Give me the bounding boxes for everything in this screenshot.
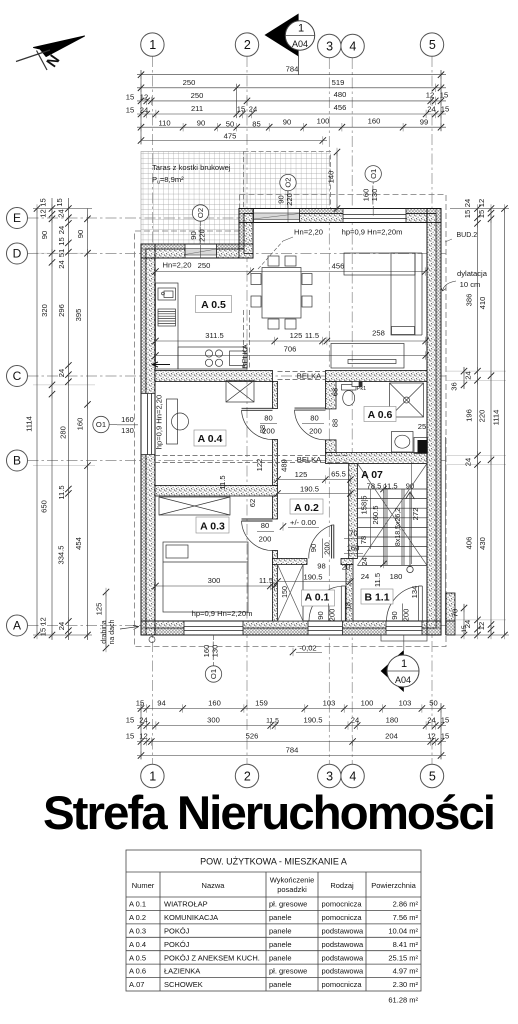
svg-text:25.15 m²: 25.15 m² xyxy=(388,953,418,962)
svg-text:Nazwa: Nazwa xyxy=(202,881,226,890)
svg-text:134: 134 xyxy=(410,586,419,599)
grid axes vertical 1-5 xyxy=(152,56,432,764)
svg-text:5: 5 xyxy=(429,769,436,783)
svg-text:15: 15 xyxy=(57,237,66,245)
svg-text:15: 15 xyxy=(126,93,134,102)
svg-text:454: 454 xyxy=(74,537,83,550)
svg-text:A 0.6: A 0.6 xyxy=(368,409,393,421)
svg-text:51: 51 xyxy=(57,249,66,257)
grid axes horizontal A-E xyxy=(28,218,447,626)
svg-text:C: C xyxy=(13,369,22,383)
svg-text:11.5: 11.5 xyxy=(218,475,227,489)
svg-text:70: 70 xyxy=(349,529,357,538)
svg-text:Pk1: Pk1 xyxy=(357,386,366,392)
svg-text:80: 80 xyxy=(310,414,318,423)
svg-text:25: 25 xyxy=(418,422,426,431)
svg-text:159: 159 xyxy=(255,699,268,708)
svg-text:94: 94 xyxy=(157,699,165,708)
top dimension block xyxy=(137,70,446,144)
svg-text:12: 12 xyxy=(139,732,147,741)
svg-text:1114: 1114 xyxy=(492,410,501,426)
svg-text:125: 125 xyxy=(295,470,308,479)
exterior wall insulation layers xyxy=(141,209,441,636)
svg-text:15: 15 xyxy=(440,91,448,100)
svg-text:1: 1 xyxy=(298,23,304,35)
terrace paving xyxy=(141,152,331,249)
svg-text:O2: O2 xyxy=(196,208,205,218)
svg-text:E: E xyxy=(13,211,21,225)
svg-text:250: 250 xyxy=(191,91,204,100)
svg-text:Hn=2,20: Hn=2,20 xyxy=(294,228,323,237)
living room dim line 706 xyxy=(156,355,426,357)
entry door B arc xyxy=(387,586,423,621)
svg-text:A 0.6: A 0.6 xyxy=(129,967,146,976)
svg-text:+/- 0.00: +/- 0.00 xyxy=(290,518,316,527)
svg-text:-0,02: -0,02 xyxy=(299,644,316,653)
svg-text:A04: A04 xyxy=(395,675,411,685)
svg-text:2.86 m²: 2.86 m² xyxy=(393,900,419,909)
BUD.2 neighbour wall stub xyxy=(446,437,456,635)
svg-text:A: A xyxy=(13,619,21,633)
svg-text:12: 12 xyxy=(39,617,48,625)
svg-text:110: 110 xyxy=(158,119,170,128)
vent arrow kitchen xyxy=(152,362,170,367)
svg-text:99: 99 xyxy=(420,118,428,127)
grid bubbles top xyxy=(141,33,444,58)
svg-text:24: 24 xyxy=(139,716,147,725)
grid bubbles left xyxy=(7,208,28,637)
svg-text:220: 220 xyxy=(478,410,487,423)
svg-text:Hn=2,20: Hn=2,20 xyxy=(163,261,192,270)
under-stair void X xyxy=(357,464,427,566)
svg-text:90: 90 xyxy=(390,611,399,619)
svg-text:160: 160 xyxy=(208,699,221,708)
svg-text:A 0.5: A 0.5 xyxy=(129,953,146,962)
svg-text:100: 100 xyxy=(317,117,330,126)
svg-text:85: 85 xyxy=(252,120,260,129)
svg-text:24: 24 xyxy=(360,557,369,565)
svg-text:15: 15 xyxy=(441,716,449,725)
svg-text:B: B xyxy=(13,454,21,468)
window bottom wall O1 xyxy=(184,621,243,635)
svg-text:78.5: 78.5 xyxy=(367,482,382,491)
terrace door right O2 xyxy=(254,209,300,223)
area table xyxy=(126,850,421,991)
svg-text:160: 160 xyxy=(347,544,360,553)
svg-text:2.30 m²: 2.30 m² xyxy=(393,980,419,989)
svg-text:296: 296 xyxy=(57,304,66,317)
roof overhang dashed xyxy=(135,195,447,647)
svg-text:125: 125 xyxy=(290,331,303,340)
svg-text:456: 456 xyxy=(334,103,347,112)
svg-text:24: 24 xyxy=(57,369,66,377)
entry door A arc xyxy=(309,586,345,621)
right dimension block xyxy=(450,209,509,636)
wardrobe A0.3 xyxy=(159,497,230,515)
left 125 dim xyxy=(105,592,107,648)
svg-text:panele: panele xyxy=(269,980,292,989)
svg-text:panele: panele xyxy=(269,926,292,935)
svg-text:8.41 m²: 8.41 m² xyxy=(393,940,419,949)
svg-text:panele: panele xyxy=(269,953,292,962)
svg-text:A 0.1: A 0.1 xyxy=(129,900,146,909)
svg-text:BELKA: BELKA xyxy=(241,343,250,368)
svg-text:1: 1 xyxy=(149,38,156,52)
svg-text:pomocnicza: pomocnicza xyxy=(322,980,363,989)
svg-text:130: 130 xyxy=(370,189,379,202)
svg-text:hp=0,9 Hn=2,20m: hp=0,9 Hn=2,20m xyxy=(342,228,403,237)
stairs B1.1 xyxy=(357,464,427,566)
svg-text:2: 2 xyxy=(244,38,251,52)
terrace label xyxy=(152,163,231,186)
svg-text:drabina: drabina xyxy=(101,620,108,643)
svg-text:O1: O1 xyxy=(369,169,378,179)
svg-text:220: 220 xyxy=(285,193,294,206)
entry door A opening xyxy=(308,621,343,635)
living room dim line 250/456 xyxy=(156,271,426,273)
svg-text:15: 15 xyxy=(441,105,449,114)
svg-text:1: 1 xyxy=(401,658,407,670)
svg-text:2: 2 xyxy=(244,769,251,783)
svg-text:5: 5 xyxy=(429,38,436,52)
svg-text:526: 526 xyxy=(246,732,259,741)
svg-text:11.5: 11.5 xyxy=(305,331,319,340)
svg-text:90: 90 xyxy=(76,230,85,238)
svg-text:24: 24 xyxy=(464,371,473,379)
window label O2 left xyxy=(189,205,209,258)
svg-text:podstawowa: podstawowa xyxy=(322,953,365,962)
svg-text:panele: panele xyxy=(269,913,292,922)
svg-text:204: 204 xyxy=(385,732,398,741)
svg-text:15: 15 xyxy=(55,198,64,206)
svg-text:Powierzchnia: Powierzchnia xyxy=(371,881,416,890)
svg-text:15: 15 xyxy=(136,699,144,708)
svg-text:320: 320 xyxy=(40,304,49,317)
svg-text:11.5: 11.5 xyxy=(259,576,273,585)
svg-text:podstawowa: podstawowa xyxy=(322,940,365,949)
svg-text:SCHOWEK: SCHOWEK xyxy=(164,980,203,989)
svg-text:150: 150 xyxy=(282,586,289,598)
svg-text:650: 650 xyxy=(40,500,49,513)
svg-text:24: 24 xyxy=(57,209,66,217)
svg-text:180: 180 xyxy=(390,572,403,581)
svg-text:O1: O1 xyxy=(209,669,218,679)
svg-text:20: 20 xyxy=(342,563,350,572)
svg-text:Wykończenie: Wykończenie xyxy=(270,876,315,885)
svg-text:10.04 m²: 10.04 m² xyxy=(388,926,418,935)
svg-text:180: 180 xyxy=(386,716,399,725)
svg-text:24: 24 xyxy=(351,716,359,725)
tv cabinet xyxy=(331,344,404,369)
svg-text:190.5: 190.5 xyxy=(300,485,319,494)
terrace 140 dim xyxy=(336,152,338,209)
svg-text:103: 103 xyxy=(323,699,336,708)
svg-text:386: 386 xyxy=(465,294,474,307)
svg-text:260.5: 260.5 xyxy=(371,505,380,524)
svg-text:100: 100 xyxy=(361,699,374,708)
bottom dimension block xyxy=(137,703,446,759)
svg-text:475: 475 xyxy=(224,132,237,141)
rainwater pipe xyxy=(149,637,155,643)
svg-text:8x18,5x26,2: 8x18,5x26,2 xyxy=(395,508,402,546)
svg-text:706: 706 xyxy=(284,345,297,354)
fraction dividers xyxy=(200,186,403,661)
svg-text:O2: O2 xyxy=(284,178,293,188)
svg-text:podstawowa: podstawowa xyxy=(322,926,365,935)
chimney shaft black xyxy=(418,440,428,454)
svg-text:7.56 m²: 7.56 m² xyxy=(393,913,419,922)
svg-text:62: 62 xyxy=(248,499,257,507)
window label O1 left wall xyxy=(93,415,138,435)
room labels xyxy=(194,296,396,607)
svg-text:130: 130 xyxy=(121,426,134,435)
svg-text:POKÓJ: POKÓJ xyxy=(164,926,190,935)
svg-text:15: 15 xyxy=(126,716,134,725)
svg-text:90: 90 xyxy=(40,231,49,239)
svg-text:122: 122 xyxy=(255,459,264,472)
svg-text:406: 406 xyxy=(465,537,474,550)
svg-text:15: 15 xyxy=(463,210,472,218)
svg-text:A 07: A 07 xyxy=(361,469,383,481)
svg-text:250: 250 xyxy=(183,78,196,87)
svg-text:24: 24 xyxy=(57,226,66,234)
svg-text:36: 36 xyxy=(450,382,459,390)
svg-text:140: 140 xyxy=(327,171,336,184)
svg-text:395: 395 xyxy=(74,309,83,322)
svg-text:B 1.1: B 1.1 xyxy=(364,592,389,604)
svg-text:160: 160 xyxy=(76,418,85,431)
door A0.1 to corridor xyxy=(309,525,334,559)
svg-text:90: 90 xyxy=(283,118,291,127)
svg-text:24: 24 xyxy=(427,716,435,725)
svg-text:24: 24 xyxy=(427,105,435,114)
section marker bottom (1/A04) xyxy=(381,622,419,692)
corridor dims xyxy=(278,479,351,481)
bed A0.3 xyxy=(163,542,248,612)
svg-text:88: 88 xyxy=(331,419,340,427)
svg-text:3: 3 xyxy=(326,39,333,53)
svg-text:24: 24 xyxy=(249,105,257,114)
svg-text:103: 103 xyxy=(399,699,412,708)
svg-text:65.5: 65.5 xyxy=(331,470,346,479)
wardrobe A0.4 xyxy=(226,381,254,403)
exterior wall concrete layers xyxy=(146,214,436,636)
svg-text:A.07: A.07 xyxy=(129,980,144,989)
svg-text:D: D xyxy=(13,247,22,261)
svg-text:POKÓJ: POKÓJ xyxy=(164,940,190,949)
svg-text:4.97 m²: 4.97 m² xyxy=(393,967,419,976)
svg-text:pł. gresowe: pł. gresowe xyxy=(269,900,307,909)
svg-text:Taras z kostki brukowej: Taras z kostki brukowej xyxy=(152,163,231,172)
svg-text:BELKA: BELKA xyxy=(297,455,322,464)
svg-text:12: 12 xyxy=(477,622,486,630)
svg-text:211: 211 xyxy=(191,104,203,113)
svg-text:90: 90 xyxy=(406,482,414,491)
stair walk line with arrow xyxy=(406,492,415,573)
svg-text:12: 12 xyxy=(39,209,48,217)
left dimension block xyxy=(33,198,92,640)
interior walls xyxy=(155,371,427,622)
svg-text:posadzki: posadzki xyxy=(277,885,307,894)
svg-text:24: 24 xyxy=(463,199,472,207)
svg-text:98: 98 xyxy=(317,562,325,571)
svg-text:Pu=8,9m²: Pu=8,9m² xyxy=(152,175,184,186)
living room dim line 311.5/125/11.5/258 xyxy=(156,340,426,342)
svg-text:50: 50 xyxy=(429,699,437,708)
svg-text:480: 480 xyxy=(334,90,347,99)
svg-text:15: 15 xyxy=(39,198,48,206)
svg-text:50: 50 xyxy=(226,120,234,129)
svg-text:1114: 1114 xyxy=(25,416,34,432)
window left wall O1 xyxy=(141,394,155,455)
exterior wall outlines xyxy=(141,209,441,636)
svg-text:12: 12 xyxy=(140,93,148,102)
svg-text:24: 24 xyxy=(361,572,369,581)
svg-text:90: 90 xyxy=(197,119,205,128)
door A0.3 xyxy=(242,519,273,551)
svg-text:1: 1 xyxy=(149,769,156,783)
svg-text:519: 519 xyxy=(332,78,345,87)
svg-text:O1: O1 xyxy=(96,420,106,429)
svg-text:A 0.4: A 0.4 xyxy=(129,940,146,949)
svg-text:300: 300 xyxy=(207,716,220,725)
svg-text:15: 15 xyxy=(237,105,245,114)
svg-text:158|5: 158|5 xyxy=(360,496,369,515)
svg-text:A 0.2: A 0.2 xyxy=(129,913,146,922)
window label O2 right xyxy=(277,174,297,222)
svg-text:A 0.5: A 0.5 xyxy=(201,299,226,311)
svg-text:dylatacja: dylatacja xyxy=(457,269,488,278)
Pk1 riser xyxy=(352,382,362,387)
svg-text:12: 12 xyxy=(427,732,435,741)
window label O1 bottom xyxy=(202,635,222,682)
svg-text:WIATROŁAP: WIATROŁAP xyxy=(164,900,208,909)
A0.3 labels xyxy=(156,585,278,587)
window top wall O1 xyxy=(343,209,406,223)
svg-text:272: 272 xyxy=(411,508,420,521)
svg-text:190.5: 190.5 xyxy=(303,573,322,582)
svg-text:A 0.2: A 0.2 xyxy=(294,502,319,514)
svg-text:70: 70 xyxy=(451,609,460,617)
svg-text:4: 4 xyxy=(349,39,356,53)
svg-text:258: 258 xyxy=(372,329,385,338)
svg-text:80: 80 xyxy=(264,414,272,423)
svg-text:250: 250 xyxy=(198,261,211,270)
svg-text:784: 784 xyxy=(286,746,299,755)
svg-text:POW. UŻYTKOWA - MIESZKANIE A: POW. UŻYTKOWA - MIESZKANIE A xyxy=(200,857,347,867)
svg-text:panele: panele xyxy=(269,940,292,949)
svg-text:410: 410 xyxy=(478,297,487,310)
svg-text:334.5: 334.5 xyxy=(57,545,66,564)
svg-text:24: 24 xyxy=(57,622,66,630)
svg-text:130: 130 xyxy=(211,645,220,658)
svg-text:15: 15 xyxy=(461,625,468,633)
svg-text:18: 18 xyxy=(346,602,353,610)
svg-text:24: 24 xyxy=(57,260,66,268)
svg-text:A 0.3: A 0.3 xyxy=(200,521,225,533)
svg-text:200: 200 xyxy=(262,427,275,436)
svg-text:90: 90 xyxy=(316,611,325,619)
svg-text:200: 200 xyxy=(259,535,272,544)
svg-text:68: 68 xyxy=(331,388,340,396)
north arrow xyxy=(16,36,85,71)
svg-text:430: 430 xyxy=(478,537,487,550)
svg-text:196: 196 xyxy=(465,409,474,422)
svg-text:A 0.3: A 0.3 xyxy=(129,926,146,935)
washbasin xyxy=(392,432,414,453)
svg-text:11.5: 11.5 xyxy=(266,718,279,725)
svg-text:125: 125 xyxy=(95,603,104,616)
svg-text:80: 80 xyxy=(261,521,269,530)
svg-text:160: 160 xyxy=(121,415,134,424)
svg-text:15: 15 xyxy=(126,732,134,741)
roof hatch box with X xyxy=(278,565,304,622)
window label O1 top xyxy=(362,166,382,216)
svg-text:11.5: 11.5 xyxy=(383,482,397,491)
svg-text:A04: A04 xyxy=(292,39,308,49)
svg-text:15: 15 xyxy=(39,628,48,636)
door arc bathroom xyxy=(295,408,326,440)
svg-text:24: 24 xyxy=(464,458,473,466)
svg-text:BUD.2: BUD.2 xyxy=(457,232,478,239)
svg-text:11.5: 11.5 xyxy=(57,485,66,499)
svg-text:489: 489 xyxy=(280,459,289,472)
svg-text:A 0.4: A 0.4 xyxy=(198,433,223,445)
door arc A0.4 xyxy=(242,408,273,439)
shower xyxy=(390,383,424,417)
svg-text:24: 24 xyxy=(140,106,148,115)
svg-text:280: 280 xyxy=(59,426,68,439)
dining table xyxy=(251,256,312,329)
svg-text:300: 300 xyxy=(208,576,221,585)
porch step at entry B xyxy=(381,635,427,641)
svg-text:3: 3 xyxy=(326,769,333,783)
svg-text:220: 220 xyxy=(198,229,207,242)
svg-text:160: 160 xyxy=(368,117,381,126)
svg-text:78: 78 xyxy=(359,536,368,544)
svg-text:KOMUNIKACJA: KOMUNIKACJA xyxy=(164,913,218,922)
entry door B opening xyxy=(386,621,422,635)
svg-text:200: 200 xyxy=(309,427,322,436)
svg-text:pł. gresowe: pł. gresowe xyxy=(269,967,307,976)
svg-text:Strefa Nieruchomości: Strefa Nieruchomości xyxy=(43,787,494,840)
svg-text:A 0.1: A 0.1 xyxy=(305,592,330,604)
svg-text:784: 784 xyxy=(286,65,299,74)
svg-text:11.5: 11.5 xyxy=(373,573,382,587)
svg-text:15: 15 xyxy=(441,732,449,741)
kitchen counters xyxy=(156,283,248,369)
svg-text:pomocnicza: pomocnicza xyxy=(322,900,363,909)
svg-text:pomocnicza: pomocnicza xyxy=(322,913,363,922)
svg-text:15: 15 xyxy=(477,210,486,218)
svg-text:15: 15 xyxy=(126,106,134,115)
section marker top (1/A04) xyxy=(265,14,315,76)
svg-text:12: 12 xyxy=(477,199,486,207)
svg-text:ŁAZIENKA: ŁAZIENKA xyxy=(164,967,200,976)
svg-text:4: 4 xyxy=(349,769,356,783)
desk and chair A0.4 xyxy=(167,399,189,444)
svg-text:Rodzaj: Rodzaj xyxy=(330,881,354,890)
beams dashed (belka) xyxy=(155,310,348,463)
bathroom fixtures xyxy=(342,382,424,453)
svg-text:61.28 m²: 61.28 m² xyxy=(388,996,418,1005)
grid bubbles bottom xyxy=(141,764,444,787)
svg-text:podstawowa: podstawowa xyxy=(322,967,365,976)
terrace door left O2 xyxy=(185,245,217,259)
svg-text:311.5: 311.5 xyxy=(205,331,223,340)
svg-text:BELKA: BELKA xyxy=(297,372,322,381)
toilet xyxy=(342,385,357,391)
